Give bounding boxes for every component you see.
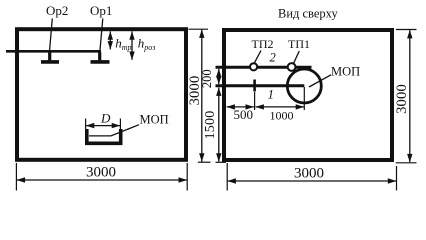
dim 500 (227, 106, 254, 108)
leader TP1 (294, 51, 300, 63)
svg-text:200: 200 (200, 69, 214, 88)
leader TP2 (254, 51, 261, 64)
leader Op2 (50, 19, 53, 51)
svg-text:hроз: hроз (138, 36, 156, 52)
junction tick on wire 1 (253, 80, 256, 92)
socket TP2 (250, 63, 257, 70)
svg-text:Ор2: Ор2 (46, 3, 68, 18)
extension from MOP centre (303, 87, 305, 110)
dim h_tr (109, 31, 111, 49)
extension from junction tick (254, 92, 256, 110)
svg-text:1500: 1500 (203, 111, 218, 140)
svg-text:hтр: hтр (115, 36, 131, 52)
right room walls (top view) (224, 30, 392, 160)
svg-text:3000: 3000 (294, 166, 324, 182)
MOP circle (top view) (287, 69, 321, 103)
svg-text:500: 500 (234, 107, 254, 122)
leader Op1 (100, 19, 103, 51)
svg-text:МОП: МОП (140, 113, 169, 127)
dim h_roz (131, 31, 133, 59)
dim 3000 vertical (left room height) (189, 28, 209, 30)
luminaire Op2 (41, 52, 59, 62)
luminaire Op1 (91, 52, 110, 62)
svg-text:Ор1: Ор1 (90, 3, 112, 18)
svg-text:3000: 3000 (86, 165, 116, 181)
leader shelf MOP (89, 125, 139, 136)
svg-text:1: 1 (268, 87, 275, 102)
dim D (85, 119, 87, 131)
dim 3000 right (room height) (396, 29, 417, 31)
svg-text:1000: 1000 (270, 109, 294, 123)
svg-text:2: 2 (270, 51, 276, 65)
dim 1000 (256, 106, 304, 108)
wire 1 (to MOP) (216, 84, 305, 87)
svg-text:МОП: МОП (331, 65, 360, 79)
left room walls (side view) (17, 29, 186, 160)
svg-text:ТП2: ТП2 (252, 37, 274, 51)
wire (ceiling run, side view) (6, 50, 101, 53)
leader MOP (309, 75, 331, 87)
sink MOP (tub, side view) (87, 129, 121, 143)
wire 2 (to sockets) (216, 66, 312, 69)
dim 3000 bottom left (15, 163, 17, 191)
dim 1500 (218, 88, 220, 162)
svg-text:ТП1: ТП1 (288, 37, 310, 51)
svg-text:Вид сверху: Вид сверху (278, 7, 338, 21)
dim 200 (218, 69, 220, 84)
svg-text:3000: 3000 (394, 84, 410, 114)
socket TP1 (288, 63, 296, 71)
svg-text:D: D (100, 110, 111, 125)
dim 3000 bottom right (226, 163, 228, 191)
